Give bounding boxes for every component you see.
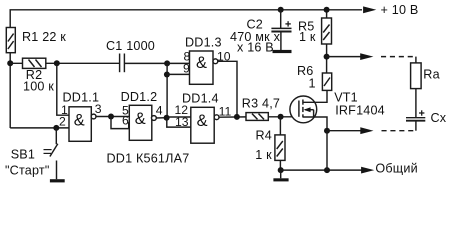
svg-text:&: & [196, 54, 207, 72]
resistor Ra [411, 63, 422, 89]
transistor VT1 source stub [303, 117, 327, 131]
svg-text:Cx: Cx [431, 111, 447, 125]
pin 3 bubble [91, 114, 96, 119]
op-amp U1 gate DD1.3 [190, 51, 214, 84]
svg-text:3: 3 [95, 102, 102, 116]
resistor R3 [246, 113, 268, 121]
wire pin 13 feed [167, 118, 191, 127]
wire C1 to node [124, 62, 167, 64]
pin 4 bubble [152, 116, 157, 121]
arrow source out [327, 130, 361, 132]
svg-text:1: 1 [309, 77, 316, 91]
transistor VT1 body arrow [305, 109, 314, 111]
transistor VT1 gate bar [298, 101, 300, 117]
svg-text:C1 1000: C1 1000 [106, 39, 155, 53]
svg-text:&: & [135, 110, 146, 128]
ground under SB1 [50, 179, 65, 182]
svg-text:10: 10 [217, 50, 231, 64]
node SB1 junction [53, 125, 59, 131]
wire pin 9 [167, 73, 190, 75]
svg-text:DD1 К561ЛА7: DD1 К561ЛА7 [107, 152, 190, 166]
ground under C2 [280, 32, 282, 51]
svg-text:100 к: 100 к [23, 80, 54, 94]
wire Ra to Cx [415, 89, 417, 118]
svg-text:9: 9 [183, 61, 190, 75]
transistor VT1 channel segments [302, 100, 304, 105]
svg-text:2: 2 [59, 115, 66, 129]
node outputs junction [234, 114, 240, 120]
capacitor Cx [406, 117, 425, 119]
pin 11 bubble [214, 115, 219, 120]
ground under R4 [280, 170, 282, 178]
svg-text:DD1.3: DD1.3 [185, 36, 222, 50]
wire R2 row [10, 62, 119, 64]
svg-text:4: 4 [156, 104, 163, 118]
wire DD1.3 output [218, 61, 237, 117]
wire pin 8 [167, 62, 189, 64]
svg-text:DD1.2: DD1.2 [121, 90, 158, 104]
wire pin 1 feed [57, 63, 69, 115]
resistor R5 [322, 18, 332, 44]
node source-common junction [324, 167, 330, 173]
svg-text:R1 22 к: R1 22 к [22, 30, 66, 44]
op-amp U1 gate DD1.1 [69, 107, 91, 142]
node R4 bottom junction [278, 167, 284, 173]
svg-text:&: & [197, 112, 208, 130]
resistor R1 [6, 28, 15, 53]
wire R5 to node A [326, 44, 328, 73]
wire common rail [281, 169, 362, 171]
wire source to common [326, 131, 328, 170]
wire R5 rail top [326, 10, 328, 18]
svg-text:13: 13 [175, 115, 189, 129]
node source junction [324, 128, 330, 134]
node gate junction [278, 114, 284, 120]
arrow common [361, 167, 374, 174]
wire pin 12 [167, 116, 191, 118]
wire pin 6 feed [111, 117, 129, 129]
wire vertical node to DD1.2 output [166, 63, 168, 117]
wire R4 top lead [279, 117, 281, 135]
svg-text:х 16 В: х 16 В [237, 41, 274, 55]
node C1 right junction [164, 60, 170, 66]
svg-text:SB1: SB1 [11, 147, 35, 161]
svg-text:1 к: 1 к [299, 30, 316, 44]
svg-text:6: 6 [122, 113, 129, 127]
svg-text:R4: R4 [256, 129, 273, 143]
wire DD1.2 output [156, 117, 166, 119]
node DD1.1 out junction [108, 114, 114, 120]
svg-text:&: & [74, 112, 85, 130]
svg-text:R3 4,7: R3 4,7 [242, 97, 280, 111]
arrow +10V [363, 6, 376, 13]
node R2-C1-pin1 junction [54, 60, 60, 66]
capacitor C1 [119, 54, 121, 73]
svg-text:Ra: Ra [423, 68, 440, 82]
transistor VT1 drain stub [303, 90, 327, 102]
svg-text:IRF1404: IRF1404 [335, 103, 385, 117]
node pin9 junction [164, 72, 170, 78]
capacitor C2 [278, 7, 284, 13]
resistor R6 [322, 73, 331, 90]
svg-text:+ 10 В: + 10 В [381, 3, 419, 17]
svg-text:"Старт": "Старт" [5, 164, 50, 178]
wire DD1.1 output to pin5 [96, 116, 129, 118]
wire Cx bottom dashed [415, 121, 417, 131]
wire R4 bottom lead [279, 160, 281, 170]
transistor Q1 VT1 circle [290, 96, 317, 123]
switch SB1 [55, 128, 57, 144]
resistor R2 [23, 58, 46, 68]
wire R3 to gate [268, 116, 299, 118]
op-amp U1 gate DD1.2 [129, 105, 152, 140]
wire pin 2 feed [10, 127, 69, 129]
resistor R4 [275, 135, 285, 161]
svg-text:1 к: 1 к [255, 148, 272, 162]
svg-text:11: 11 [219, 105, 232, 119]
wire top rail [10, 10, 362, 128]
wire dashed to Ra [381, 56, 416, 58]
svg-text:Общий: Общий [375, 162, 417, 176]
node DD1.2 out junction [164, 115, 170, 121]
node R1-R2 junction [7, 60, 13, 66]
op-amp U1 gate DD1.4 [191, 107, 214, 143]
node top rail R5 junction [324, 7, 330, 13]
wire DD1.4 output [219, 116, 246, 118]
arrow node A out [327, 56, 363, 58]
pin 10 bubble [213, 59, 218, 64]
svg-text:DD1.1: DD1.1 [63, 91, 100, 105]
node A R5-R6 junction [324, 54, 330, 60]
